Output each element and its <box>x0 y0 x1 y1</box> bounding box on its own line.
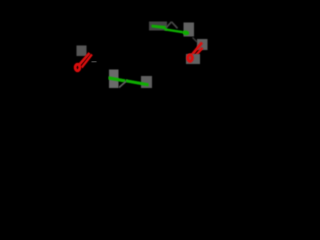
atom label box L1 <box>77 46 87 57</box>
bond remnant (faint gray, T2 to carbonyl) <box>193 38 198 43</box>
bond (green bar) GB1 <box>109 76 126 82</box>
bond (green, long) G2 <box>165 29 184 32</box>
bond apex stroke right <box>172 22 178 29</box>
atom label O (red) right <box>188 55 193 61</box>
bond apex stroke (carbon vertex, anti-aliased) left <box>166 22 172 28</box>
bond (gray diagonal) <box>119 80 128 88</box>
double bond C=O line 1 (red) right <box>189 43 203 60</box>
atom label box T1 (Cl) <box>149 22 167 31</box>
bond (green bar) GB2 <box>126 79 149 86</box>
atom label box R2 <box>186 54 200 64</box>
bond (green, Cl half) G1 <box>152 25 167 30</box>
double bond C=O line 2 (red) left <box>82 54 92 67</box>
atom label box B2 <box>141 76 152 88</box>
atom label O (red) left <box>75 64 80 70</box>
atom label box T2 <box>184 23 195 37</box>
atom label box B1 (tall) <box>109 70 119 89</box>
double bond C=O line 2 (red) right <box>193 48 203 59</box>
atom label Cl blob (green) end of G2 <box>182 30 189 36</box>
bond remnant (gray tick) <box>92 61 97 63</box>
atom label box R1 <box>197 39 208 50</box>
double bond C=O line 1 (red) left <box>79 53 90 65</box>
